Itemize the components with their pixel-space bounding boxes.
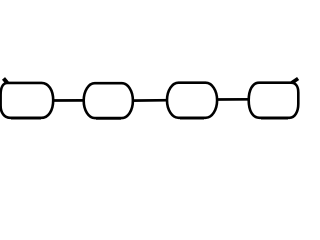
tab on port 4 (top-right) (292, 79, 298, 83)
bottom edge thickener port 1 (11, 118, 41, 120)
wire: connector bar 2 (131, 99, 169, 102)
bottom edge thickener port 3 (180, 118, 204, 120)
bottom edge thickener port 4 (261, 118, 288, 120)
gasket line drawing (intake manifold gasket) (0, 0, 300, 200)
wire: connector bar 3 (216, 98, 251, 101)
port opening 1 (leftmost, tight top-left corner) (1, 83, 54, 118)
tab on port 1 (top-left) (4, 78, 10, 85)
port opening 3 (167, 83, 217, 118)
wire: connector bar 1 (51, 99, 86, 102)
bottom edge thickener port 2 (96, 118, 121, 120)
port opening 4 (rightmost, tight top-right corner) (249, 83, 299, 118)
port opening 2 (84, 83, 133, 118)
